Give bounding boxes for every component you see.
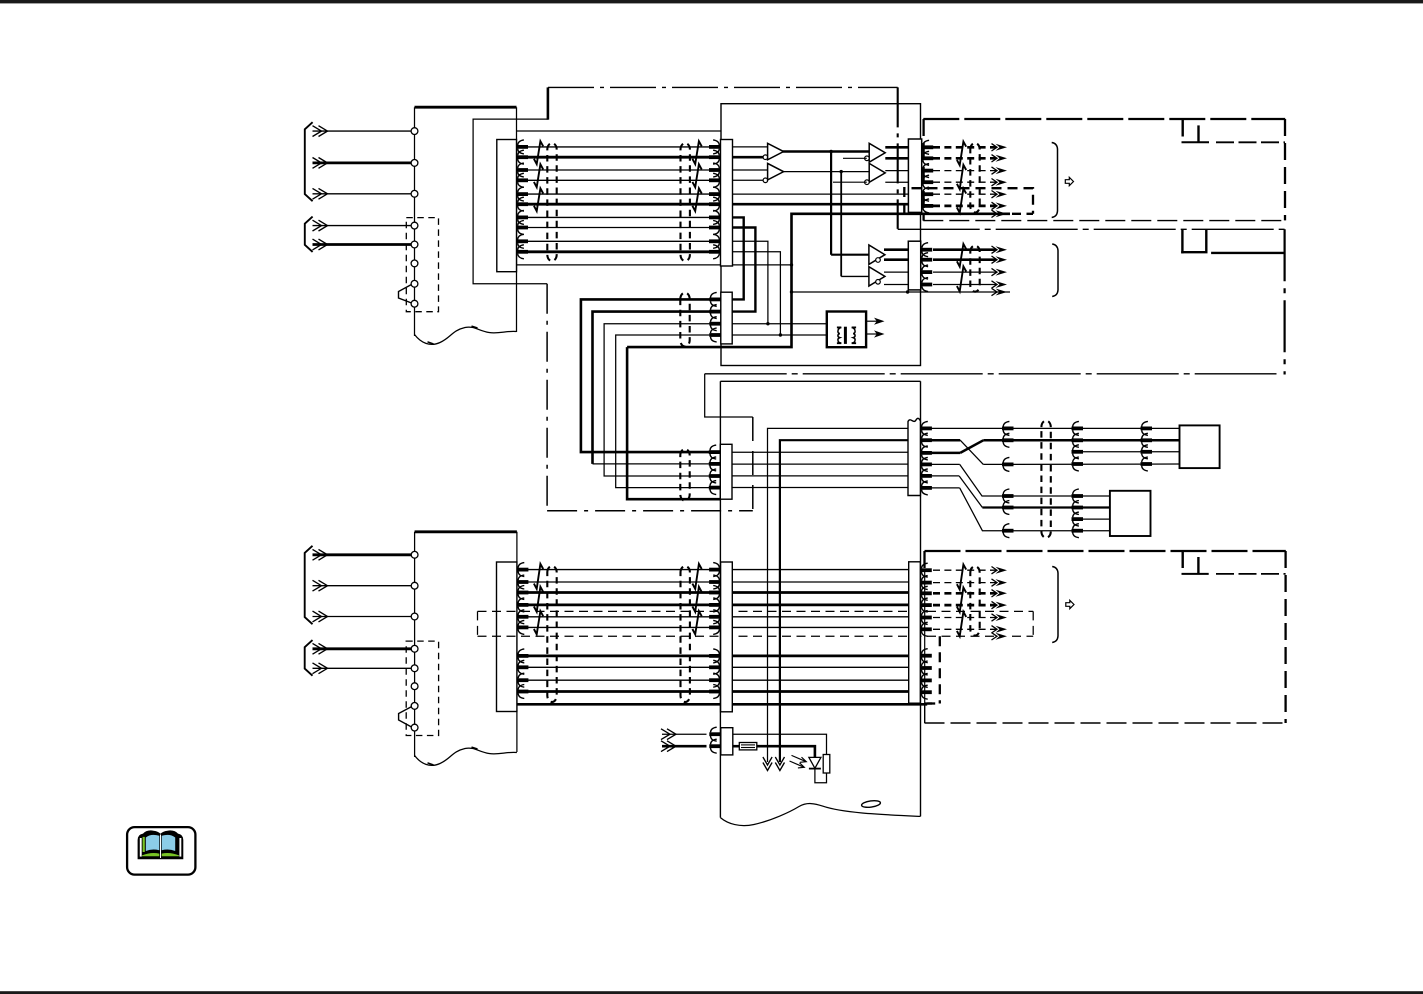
junction of ground line on power riser bbox=[790, 263, 793, 266]
hook arrows column x~1152 (into box1) bbox=[1141, 426, 1153, 430]
speaker box 2 - left edge top segment bbox=[923, 551, 925, 572]
mid row3: bold stub then crossover up to level 440 bbox=[931, 452, 960, 455]
power wire E bold: from link bus up to switched output row7 bbox=[627, 214, 1010, 347]
input arrow wires into top head unit pins bbox=[313, 130, 412, 132]
speaker box 2 - right edge bbox=[1284, 551, 1286, 723]
op-amp buffer U2 bbox=[768, 163, 784, 180]
U3 outputs to speaker connector bbox=[885, 146, 908, 149]
head unit (top) pin circles - option group bbox=[411, 222, 418, 229]
speaker output dashed wires group1 bbox=[933, 146, 996, 149]
dashed option connector box on head unit (bottom) bbox=[406, 641, 438, 735]
twist slashes bottom speaker group bbox=[957, 565, 966, 590]
mid row2 continues at level 464 to box1 pin4 bbox=[983, 463, 1179, 465]
link bus wire 2 (bold top, thin bottom) bbox=[593, 312, 721, 464]
head unit (top) torn bottom wavy edge bbox=[415, 327, 517, 344]
wire bundle: bottom head unit to amp2 (10 wires) bbox=[517, 569, 721, 571]
dart arrow on power row7 bbox=[996, 210, 1008, 217]
shield oval bottom speaker group bbox=[970, 566, 979, 635]
speaker box 1 - bottom edge bbox=[923, 220, 1285, 222]
amp2 internal pass rows to output connector bbox=[732, 451, 908, 453]
twist slashes left column (top bundle) bbox=[534, 141, 543, 164]
harness/ground line y=264.9 (head unit to amp PSU) bbox=[517, 264, 792, 266]
zone separator dash-dot y=373.8 bbox=[705, 373, 1277, 375]
mid short wire to box2 pin3 bbox=[1083, 518, 1110, 520]
ground wire dashed continuation bbox=[927, 702, 940, 704]
speaker box 1 - right edge bbox=[1284, 119, 1286, 220]
dashes continuing row7 to option box bbox=[1012, 213, 1033, 215]
input bracket group 1 (top head unit) bbox=[305, 122, 313, 201]
unit boundary - jog via head unit left bbox=[473, 119, 548, 284]
amp1 input connector A bbox=[721, 140, 733, 267]
shield oval on link bus lower section bbox=[680, 449, 689, 501]
power connector bbox=[721, 728, 733, 755]
dashed option sub-box (woofer group1) bbox=[904, 188, 1033, 214]
head unit (bottom) internal connector bbox=[497, 562, 517, 712]
unit boundary dash-dot - top horizontal y=87.4 bbox=[548, 86, 898, 88]
dashed option connector box on head unit (top) bbox=[406, 218, 438, 312]
amp1 row4 into buffer U2 inverting bbox=[733, 179, 768, 181]
amp1 row7 staircase to connector B pin1 bbox=[732, 217, 744, 299]
shield oval speaker group2 bbox=[970, 245, 979, 291]
hook arrows column x~1013 (mid wires) bbox=[1002, 426, 1014, 430]
remote box 1 (right) bbox=[1180, 425, 1220, 468]
op-amp driver U3 bbox=[869, 143, 885, 162]
mid row6 long diagonal down to box2 pin4 bbox=[931, 487, 960, 489]
speaker area dashed box 2 - top edge bbox=[925, 550, 1286, 552]
speaker output wires group2 bbox=[933, 248, 996, 251]
tick marks on torn edge (bottom unit) bbox=[428, 763, 434, 765]
twist slashes speaker group2 bbox=[957, 244, 966, 267]
op-amp buffer U1 bbox=[768, 143, 784, 160]
pass-through row5 bbox=[733, 193, 909, 195]
amp2 aux input connector (from link bus) bbox=[720, 444, 732, 499]
jumper loop between pins 7 and 8 bbox=[399, 285, 412, 303]
shield oval left (bottom bundle) bbox=[547, 566, 556, 702]
pass-through row6 (bold) bbox=[733, 203, 909, 206]
input bracket group 1 (bottom head unit) bbox=[305, 546, 313, 624]
loop mark on torn edge bbox=[861, 800, 881, 809]
unit boundary - bold corner riser x=548 bbox=[547, 87, 550, 119]
remote box 2 (lower) bbox=[1110, 491, 1151, 536]
unit boundary jog at middle box bbox=[705, 374, 753, 417]
amp1 row2 into buffer U1 inverting bbox=[733, 156, 768, 159]
amp2 input connector (bottom bundle) bbox=[721, 562, 733, 712]
harness line y=131 (head unit to amp) bbox=[517, 130, 721, 132]
input arrow wires into bottom head unit pins bbox=[313, 553, 412, 556]
amp1 row8 staircase to connector B pin2 bbox=[732, 228, 755, 312]
dart arrow on option band lower edge bbox=[996, 633, 1008, 640]
op-amp driver U4 bbox=[869, 163, 885, 182]
amp2 internal row from dangler 1 bbox=[768, 428, 909, 762]
branch vertical from U2 out to U6 bbox=[840, 172, 842, 277]
wire connector B pin4 to transformer bbox=[732, 334, 827, 336]
transformer T1 box (power supply) bbox=[827, 312, 866, 348]
zone 2 right edge dash-dot x=1283.9 bbox=[1283, 229, 1285, 374]
tick marks on torn edge bbox=[428, 342, 434, 344]
mid row1 to box1 pin1 bbox=[931, 427, 1180, 429]
amp2 internal rows (bottom) bbox=[732, 569, 908, 571]
shield oval speaker group1 bbox=[970, 143, 979, 213]
speaker box 2 - bottom edge bbox=[925, 722, 1286, 724]
shield oval right (bottom bundle) bbox=[681, 566, 690, 702]
branch vertical from U1 out to U5 bbox=[830, 152, 832, 255]
wire terminals at amp side bbox=[709, 145, 721, 149]
input bracket group 2 (top head unit) bbox=[305, 217, 313, 252]
amp2 output connector (to rear boxes) with break squiggle bbox=[908, 418, 920, 495]
book icon rounded frame bbox=[127, 827, 195, 875]
twist slashes right column (bottom bundle) bbox=[692, 564, 701, 589]
jumper loop between bottom pins 7 and 8 bbox=[399, 707, 412, 727]
amp2 internal row from dangler 2 (bold) bbox=[780, 440, 908, 762]
wire fuse to LED bbox=[757, 746, 815, 757]
head unit (bottom) torn bottom wavy edge bbox=[415, 748, 517, 765]
mid row4 diagonal down to box2 pin1 bbox=[931, 463, 960, 465]
shield oval left (top bundle) bbox=[547, 143, 556, 261]
U1 output line to U3 bbox=[783, 150, 869, 153]
head unit (top) pin circles - main group bbox=[411, 128, 418, 135]
link bus wire 5 (bold) bbox=[627, 347, 720, 499]
head unit (top) outline box with torn bottom edge bbox=[415, 106, 517, 109]
link bus wire 4 bbox=[616, 335, 721, 488]
head unit (bottom) outline box bbox=[415, 530, 517, 533]
mid row5 diagonal down to box2 pin2 bbox=[931, 475, 959, 477]
amp2 torn bottom wavy edge bbox=[720, 804, 920, 826]
speaker box 1 - left edge bbox=[922, 119, 924, 221]
wire connector B pin3 to transformer bbox=[732, 323, 827, 325]
hook arrows column x~1083 (mid wires) bbox=[1072, 426, 1084, 430]
wire terminals at head unit side bbox=[517, 145, 529, 149]
amp1 speaker output connector D bbox=[908, 139, 921, 212]
open arrow icon bottom zone bbox=[1066, 600, 1074, 608]
bracket for bottom speaker group bbox=[1052, 567, 1058, 643]
speaker box 2 - left edge thin line bbox=[924, 572, 926, 704]
unit boundary dash-dot - right vertical x=897.7 bbox=[897, 87, 899, 229]
zone separator dash-dot y=229.3 bbox=[898, 228, 1285, 230]
bottom bundle terminals at head unit side bbox=[517, 568, 529, 572]
LED cathode / resistor join bbox=[815, 769, 827, 783]
power amplifier 2 box outline bbox=[720, 380, 920, 382]
transformer output arrow 1 bbox=[866, 320, 878, 322]
page top border bar bbox=[0, 0, 1423, 3]
speaker area dashed box 1 - top edge bbox=[923, 118, 1285, 120]
LED D1 bbox=[809, 757, 821, 768]
link bus wire 3 bbox=[604, 324, 720, 476]
amp2 speaker output connector (bottom) bbox=[909, 562, 921, 703]
bracket for speaker group2 bbox=[1052, 244, 1058, 297]
head unit (bottom) pin circles - main group bbox=[411, 551, 418, 558]
link bus wire 1 (bold) bbox=[581, 299, 721, 452]
bottom bundle terminals at amp side bbox=[709, 568, 721, 572]
amp1 row3 into buffer U2 bbox=[733, 169, 768, 171]
head unit (top) internal connector CN (to amp bundle) bbox=[497, 140, 517, 272]
speaker box 2 - left edge bottom segment bbox=[924, 704, 926, 724]
speaker terminal notch 1 bbox=[1181, 119, 1183, 137]
amp2 output terminals bbox=[920, 426, 932, 430]
U6 outputs to connector C bbox=[884, 271, 908, 273]
op-amp driver U5 (zone2 left) bbox=[831, 254, 869, 256]
power connector terminals bbox=[709, 732, 721, 736]
mid row3 continues bold at level 440 to box1 pin2 bbox=[983, 439, 1179, 442]
wire from power connector row1 to resistor bbox=[733, 734, 827, 754]
dangler down-arrows bbox=[763, 763, 772, 771]
shield oval on link bus upper section bbox=[680, 293, 689, 347]
unit boundary dashed riser x=752.8 bbox=[752, 417, 754, 511]
unit boundary dash-dot - bottom y=510.7 bbox=[547, 510, 753, 512]
speaker terminal notch 2 (zone 2) bbox=[1181, 229, 1183, 253]
U5 outputs to connector C bbox=[884, 248, 908, 251]
unit boundary dash-dot - left vertical x=547.1 bbox=[546, 284, 548, 511]
input bracket group 2 (bottom head unit) bbox=[305, 640, 313, 676]
dart arrow on common return row bbox=[996, 289, 1008, 296]
mid row2: bold stub then crossover down bbox=[931, 439, 960, 442]
amp1 speaker output connector E bbox=[908, 241, 920, 290]
speaker terminal notch 3 (box2) bbox=[1181, 551, 1183, 568]
bottom speaker output dashed wires bbox=[933, 569, 996, 571]
option band notch down to ground bbox=[939, 636, 941, 703]
twist slashes speaker group1 bbox=[957, 142, 966, 166]
mid short wire to box1 pin3 bbox=[1083, 451, 1180, 453]
fuse F1 bbox=[733, 745, 740, 748]
open arrow icon zone1 bbox=[1065, 177, 1073, 185]
power input wire ACC (thin) bbox=[662, 733, 707, 735]
U2 output line to U4 bbox=[783, 171, 869, 173]
op-amp driver U6 (zone2 right) bbox=[841, 275, 869, 277]
twist slashes left column (bottom bundle) bbox=[534, 564, 543, 589]
head unit (bottom) pin circles - option group bbox=[411, 645, 418, 652]
wire bundle: head unit to power amp connector (10 wires) bbox=[517, 146, 721, 148]
transformer output arrow 2 bbox=[866, 333, 878, 335]
resistor R1 bbox=[823, 755, 830, 774]
twist slashes right column (top bundle) bbox=[692, 141, 701, 164]
speaker output dart arrows group1 bbox=[996, 144, 1008, 151]
amp1 connector B (pass-through to middle unit) bbox=[721, 292, 732, 344]
shield oval right (top bundle) bbox=[681, 143, 690, 261]
transformer T1 winding symbol bbox=[837, 327, 841, 343]
amp1 row9 staircase joining transformer feed bbox=[733, 241, 768, 323]
unused output stubs (4) bbox=[920, 654, 932, 658]
link bus terminals at middle connector bbox=[709, 450, 721, 454]
amp1 row10 staircase joining transformer feed bbox=[733, 252, 781, 335]
shield oval on middle output bundle bbox=[1041, 421, 1050, 538]
ground wire bold (bottom unit) bbox=[517, 703, 927, 706]
connector B pin arrows bbox=[709, 297, 721, 301]
LED arrows bbox=[792, 755, 806, 761]
power input wire BATT (bold) bbox=[662, 745, 707, 748]
book icon open book bbox=[138, 830, 184, 859]
common return row under connector C bbox=[792, 291, 1011, 293]
power amplifier (top) box outline bbox=[721, 104, 921, 366]
amp1 row1 into buffer U1 bbox=[733, 146, 768, 148]
U4 outputs to speaker connector bbox=[885, 170, 908, 172]
dashed option band (bottom unit) bbox=[478, 610, 1034, 612]
page bottom border bar bbox=[0, 991, 1423, 994]
bracket for speaker group1 bbox=[1052, 143, 1058, 218]
